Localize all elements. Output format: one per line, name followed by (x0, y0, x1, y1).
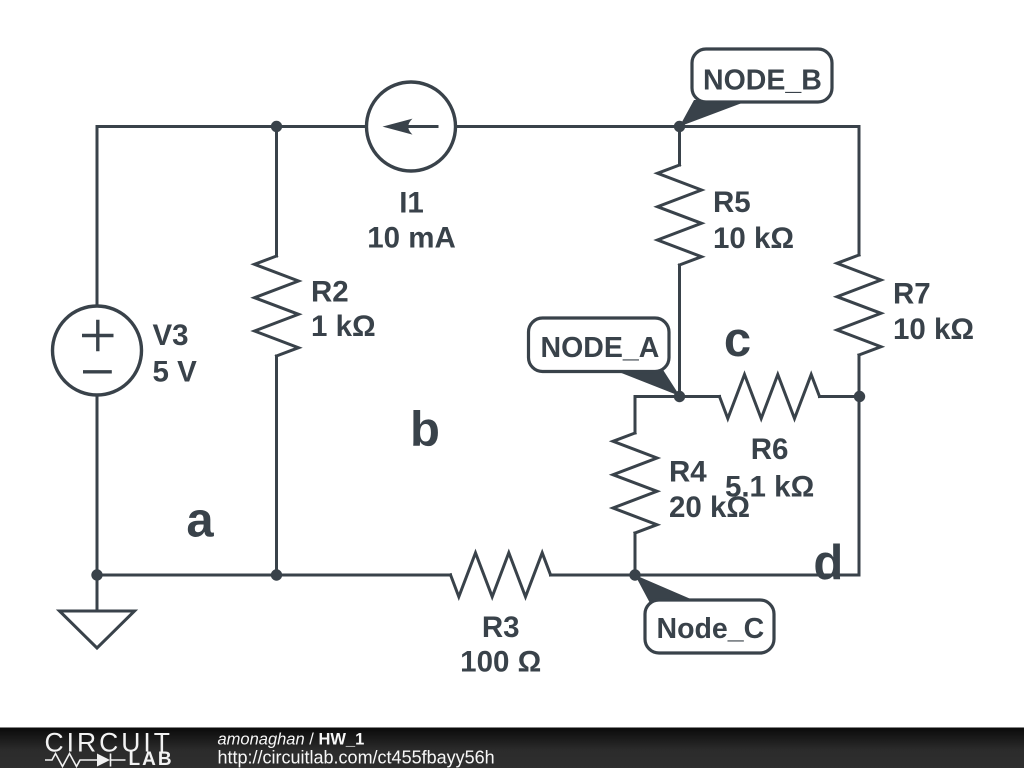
svg-text:LAB: LAB (129, 749, 174, 768)
svg-text:R7: R7 (893, 278, 931, 311)
svg-text:R4: R4 (669, 455, 707, 488)
svg-text:a: a (186, 493, 214, 547)
svg-text:R6: R6 (751, 433, 789, 466)
svg-text:amonaghan / HW_1: amonaghan / HW_1 (218, 731, 365, 749)
svg-text:10 kΩ: 10 kΩ (713, 222, 794, 255)
svg-text:100 Ω: 100 Ω (460, 646, 541, 679)
svg-text:1 kΩ: 1 kΩ (311, 310, 376, 343)
svg-text:b: b (410, 403, 440, 457)
svg-text:V3: V3 (153, 319, 189, 352)
svg-text:5 V: 5 V (153, 356, 198, 389)
svg-text:R5: R5 (713, 186, 751, 219)
svg-text:NODE_B: NODE_B (703, 64, 822, 96)
svg-text:c: c (724, 313, 751, 367)
svg-text:Node_C: Node_C (657, 613, 765, 645)
svg-text:d: d (813, 536, 843, 590)
svg-text:I1: I1 (399, 187, 424, 220)
svg-text:20 kΩ: 20 kΩ (669, 491, 750, 524)
svg-text:10 kΩ: 10 kΩ (893, 313, 974, 346)
svg-text:R3: R3 (482, 611, 520, 644)
svg-text:NODE_A: NODE_A (541, 332, 660, 364)
svg-text:10 mA: 10 mA (367, 222, 456, 255)
svg-text:R2: R2 (311, 275, 349, 308)
svg-text:http://circuitlab.com/ct455fba: http://circuitlab.com/ct455fbayy56h (218, 747, 495, 767)
